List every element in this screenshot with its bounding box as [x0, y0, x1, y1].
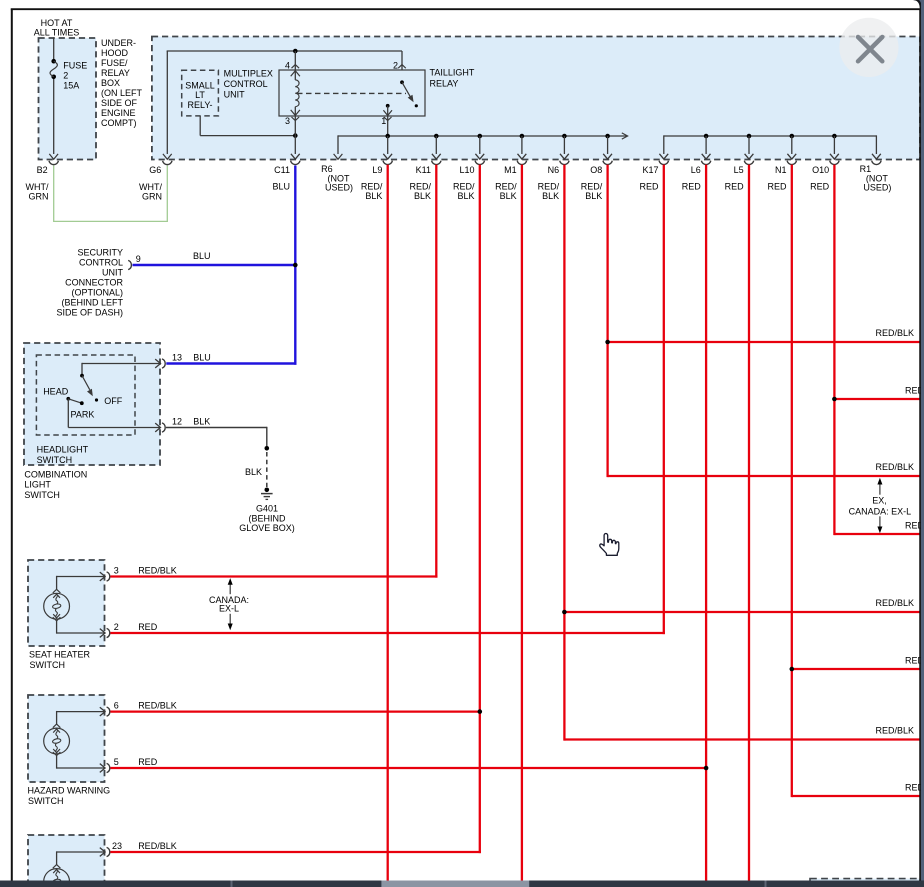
wire RED to right edge y=534 — [834, 533, 920, 535]
svg-text:RED/BLK: RED/BLK — [875, 726, 914, 736]
svg-text:RED/: RED/ — [453, 181, 475, 191]
wire WHT/GRN B2 to G6 (green) — [53, 166, 55, 222]
svg-text:RED/BLK: RED/BLK — [875, 598, 914, 608]
svg-text:OFF: OFF — [104, 396, 122, 406]
svg-text:N6: N6 — [548, 165, 560, 175]
svg-text:RED/BLK: RED/BLK — [138, 565, 177, 575]
connector L10 — [479, 136, 481, 154]
close button — [839, 18, 898, 77]
svg-text:ENGINE: ENGINE — [101, 108, 136, 118]
svg-text:3: 3 — [285, 116, 290, 126]
taillight relay box — [279, 70, 425, 116]
under-hood fuse/relay box (dashed) — [39, 38, 97, 160]
svg-text:2: 2 — [63, 71, 68, 81]
svg-text:O10: O10 — [812, 165, 829, 175]
svg-text:RELY-: RELY- — [187, 100, 212, 110]
connector L9 — [387, 136, 389, 154]
connector G6 — [163, 154, 172, 159]
svg-text:RED/: RED/ — [409, 181, 431, 191]
svg-text:RED/BLK: RED/BLK — [138, 841, 177, 851]
svg-text:BLK: BLK — [585, 191, 602, 201]
svg-text:FUSE: FUSE — [63, 61, 87, 71]
wire BLK pin 12 to ground — [166, 427, 267, 429]
connector M1 — [521, 136, 523, 154]
svg-text:COMPT): COMPT) — [101, 118, 137, 128]
wire RED/BLK to right edge y=739.5 — [564, 738, 920, 740]
svg-text:BLK: BLK — [193, 416, 210, 426]
wire G6 feed into multiplex unit — [166, 51, 168, 154]
svg-text:RED: RED — [810, 181, 830, 191]
svg-text:4: 4 — [285, 60, 290, 70]
label EX CANADA EX-L with range arrow — [879, 484, 881, 495]
svg-text:2: 2 — [393, 60, 398, 70]
relay pin 3 — [291, 110, 300, 116]
svg-text:WHT/: WHT/ — [139, 182, 162, 192]
svg-text:13: 13 — [172, 352, 182, 362]
svg-text:HOOD: HOOD — [101, 48, 129, 58]
svg-text:15A: 15A — [63, 81, 79, 91]
connector pin 3 — [100, 572, 110, 581]
svg-text:L9: L9 — [372, 165, 382, 175]
svg-text:RED/: RED/ — [581, 181, 603, 191]
wire RED to right edge y=399 — [834, 398, 920, 400]
svg-text:RED: RED — [138, 622, 158, 632]
svg-text:SWITCH: SWITCH — [37, 455, 73, 465]
connector R6 — [334, 154, 343, 159]
svg-text:HAZARD WARNING: HAZARD WARNING — [28, 786, 111, 796]
wire RED to right edge y=669 — [792, 668, 921, 670]
illumination lamp — [44, 589, 70, 621]
wire L10 RED/BLK vertical — [479, 165, 481, 854]
wire RED/BLK to right edge y=612 — [564, 611, 920, 613]
svg-text:CONTROL: CONTROL — [79, 258, 123, 268]
illumination lamp — [44, 724, 70, 756]
connector pin 6 — [100, 707, 110, 716]
headlight switch box (dashed) — [36, 355, 135, 435]
svg-text:BLK: BLK — [500, 191, 517, 201]
svg-text:C11: C11 — [274, 165, 290, 175]
svg-text:HOT AT: HOT AT — [41, 18, 73, 28]
wire RED/BLK pin 23 to L10 — [110, 851, 481, 853]
hazard warning box (dashed) — [28, 695, 105, 782]
svg-text:L6: L6 — [691, 165, 701, 175]
svg-text:SWITCH: SWITCH — [28, 796, 64, 806]
relay pin 1 — [386, 104, 390, 108]
svg-text:SIDE OF DASH): SIDE OF DASH) — [56, 308, 123, 318]
wire fuse feed — [53, 37, 55, 61]
svg-text:(OPTIONAL): (OPTIONAL) — [71, 288, 123, 298]
wire M1 RED/BLK vertical — [521, 165, 523, 881]
svg-text:BLK: BLK — [542, 191, 559, 201]
svg-text:9: 9 — [136, 254, 141, 264]
svg-text:B2: B2 — [37, 165, 48, 175]
svg-text:(BEHIND: (BEHIND — [248, 513, 286, 523]
svg-text:RED: RED — [639, 181, 659, 191]
junction coil feed — [293, 49, 298, 54]
bus right group — [664, 135, 877, 137]
svg-text:SECURITY: SECURITY — [77, 248, 123, 258]
svg-text:BLK: BLK — [457, 191, 474, 201]
svg-text:RED: RED — [725, 181, 745, 191]
multiplex control unit box (dashed) — [152, 37, 920, 160]
svg-text:12: 12 — [172, 416, 182, 426]
svg-text:BLK: BLK — [245, 467, 262, 477]
svg-text:G401: G401 — [256, 504, 278, 514]
wire O10 RED vertical — [833, 165, 835, 536]
svg-text:M1: M1 — [504, 165, 517, 175]
svg-text:UNIT: UNIT — [224, 89, 245, 99]
illumination lamp (partial) — [44, 865, 70, 887]
svg-text:RED/: RED/ — [361, 181, 383, 191]
svg-text:ALL TIMES: ALL TIMES — [34, 28, 80, 38]
svg-text:UNIT: UNIT — [102, 268, 123, 278]
svg-text:CANADA: EX-L: CANADA: EX-L — [849, 506, 912, 516]
svg-text:WHT/: WHT/ — [26, 182, 49, 192]
connector O10 — [833, 136, 835, 154]
svg-text:EX,: EX, — [872, 495, 887, 505]
svg-text:2: 2 — [114, 622, 119, 632]
wire N1 RED vertical — [791, 165, 793, 798]
seat heater box (dashed) — [28, 560, 105, 646]
connector B2 — [49, 154, 58, 159]
svg-text:GRN: GRN — [29, 191, 49, 201]
wire RED/BLK to right edge y=476 — [608, 475, 921, 477]
svg-text:UNDER-: UNDER- — [101, 38, 136, 48]
connector C11 — [291, 154, 300, 165]
internal wires — [57, 576, 105, 578]
svg-text:RED/BLK: RED/BLK — [138, 700, 177, 710]
svg-text:MULTIPLEX: MULTIPLEX — [224, 69, 273, 79]
wire L6 RED vertical — [705, 165, 707, 881]
svg-text:BLU: BLU — [193, 352, 211, 362]
svg-text:TAILLIGHT: TAILLIGHT — [430, 68, 475, 78]
svg-text:BLK: BLK — [365, 191, 382, 201]
combination light switch box (dashed) — [24, 343, 160, 465]
relay coil — [294, 51, 296, 80]
svg-text:1: 1 — [381, 116, 386, 126]
svg-text:SEAT HEATER: SEAT HEATER — [29, 650, 91, 660]
svg-text:RED: RED — [767, 181, 787, 191]
svg-text:(BEHIND LEFT: (BEHIND LEFT — [61, 298, 123, 308]
svg-text:RED/: RED/ — [495, 181, 517, 191]
svg-text:PARK: PARK — [71, 409, 95, 419]
third switch box (dashed, clipped) — [28, 835, 105, 887]
svg-text:5: 5 — [114, 757, 119, 767]
connector pin 2 — [100, 628, 110, 637]
connector pin 23 — [100, 847, 110, 856]
svg-text:SMALL: SMALL — [185, 81, 215, 91]
svg-text:BLK: BLK — [414, 191, 431, 201]
mouse cursor (hand pointer) — [600, 534, 619, 556]
svg-text:(ON LEFT: (ON LEFT — [101, 88, 143, 98]
svg-text:SWITCH: SWITCH — [30, 660, 66, 670]
wire RED to right edge y=796 — [792, 795, 921, 797]
svg-text:RED/: RED/ — [538, 181, 560, 191]
svg-text:SIDE OF: SIDE OF — [101, 98, 138, 108]
connector L5 — [748, 136, 750, 154]
wire K11 RED/BLK vertical to seat heater pin 3 — [435, 165, 437, 578]
svg-text:BLU: BLU — [272, 181, 290, 191]
wire RED/BLK seat heater pin 3 to K11 — [110, 575, 437, 577]
svg-text:O8: O8 — [590, 165, 602, 175]
svg-text:HEADLIGHT: HEADLIGHT — [37, 445, 89, 455]
wire K17 RED vertical to seat heater pin 2 — [663, 165, 665, 635]
svg-text:RELAY: RELAY — [101, 68, 130, 78]
svg-text:COMBINATION: COMBINATION — [24, 469, 87, 479]
wire small lt relay to pin3 net — [199, 116, 201, 136]
wire RED seat heater pin 2 to K17 — [110, 632, 665, 634]
relay dashed actuation link — [297, 92, 406, 94]
bus from relay pin 1 (left group) — [338, 135, 627, 137]
svg-text:USED): USED) — [325, 182, 353, 192]
switch position OFF — [95, 398, 98, 401]
svg-text:USED): USED) — [863, 182, 891, 192]
svg-text:K17: K17 — [642, 165, 658, 175]
svg-text:6: 6 — [114, 700, 119, 710]
wire L9 RED/BLK vertical — [387, 165, 389, 881]
svg-text:SWITCH: SWITCH — [24, 490, 60, 500]
bottom scrollbar — [0, 881, 924, 887]
svg-text:G6: G6 — [149, 165, 161, 175]
connector N1 — [791, 136, 793, 154]
svg-text:3: 3 — [114, 565, 119, 575]
svg-text:BLU: BLU — [193, 251, 211, 261]
wire O8 RED/BLK vertical — [606, 165, 608, 478]
wire L5 RED vertical — [748, 165, 750, 881]
svg-text:CONTROL: CONTROL — [224, 79, 268, 89]
wire N6 RED/BLK vertical — [563, 165, 565, 741]
internal wires — [57, 711, 105, 713]
connector O8 — [607, 136, 609, 154]
diagram frame — [11, 9, 13, 887]
connector K11 — [435, 136, 437, 154]
connector L6 — [705, 136, 707, 154]
switch blade head-park — [68, 399, 82, 403]
right scrollbar strip — [908, 0, 924, 14]
svg-text:FUSE/: FUSE/ — [101, 58, 128, 68]
svg-text:RED: RED — [682, 181, 702, 191]
ground G401 — [265, 488, 270, 493]
svg-text:LIGHT: LIGHT — [24, 480, 51, 490]
connector pin 5 — [100, 763, 110, 772]
svg-text:RELAY: RELAY — [430, 78, 459, 88]
connector N6 — [563, 136, 565, 154]
svg-text:L10: L10 — [459, 165, 474, 175]
svg-text:GLOVE BOX): GLOVE BOX) — [239, 523, 295, 533]
svg-text:CONNECTOR: CONNECTOR — [65, 278, 123, 288]
connector R1 — [872, 154, 881, 165]
svg-text:K11: K11 — [416, 165, 431, 175]
partial dashed box bottom right — [810, 879, 920, 887]
connector K17 — [659, 154, 668, 165]
svg-text:L5: L5 — [734, 165, 744, 175]
connector pin 13 — [155, 359, 165, 368]
wire RED hazard pin 5 to L6 — [110, 767, 706, 769]
small lt relay box (dashed) — [182, 70, 219, 116]
svg-text:23: 23 — [112, 841, 122, 851]
wire pin 12 inside switch — [67, 399, 69, 428]
svg-text:RED/BLK: RED/BLK — [875, 328, 914, 338]
svg-text:EX-L: EX-L — [219, 604, 239, 614]
svg-text:GRN: GRN — [142, 191, 162, 201]
headlight switch wiper pin 13 — [82, 363, 160, 365]
svg-text:BOX: BOX — [101, 78, 120, 88]
svg-text:N1: N1 — [775, 165, 787, 175]
wire RED/BLK hazard pin 6 to L10 — [110, 710, 479, 712]
fuse F2 15A — [51, 59, 56, 64]
wire BLU from C11 — [294, 166, 296, 365]
connector pin 12 — [155, 423, 165, 432]
wire RED/BLK to right edge y=342 — [608, 341, 921, 343]
label CANADA EX-L with range arrow — [229, 584, 231, 594]
svg-text:LT: LT — [195, 90, 205, 100]
svg-text:RED: RED — [138, 757, 158, 767]
svg-text:RED/BLK: RED/BLK — [875, 462, 914, 472]
svg-text:HEAD: HEAD — [43, 386, 69, 396]
